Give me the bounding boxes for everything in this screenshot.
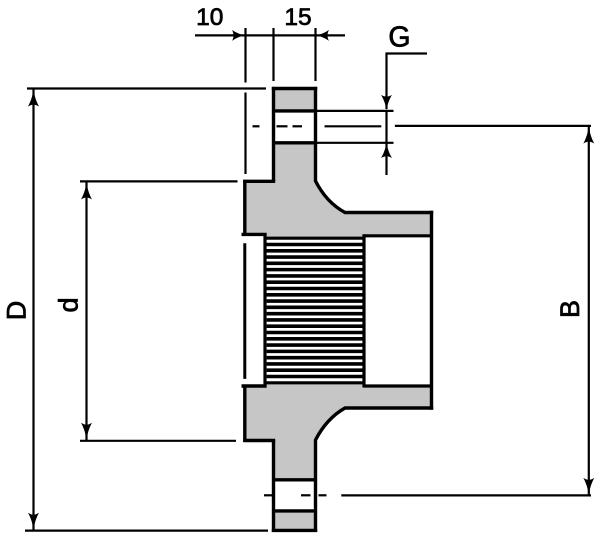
plate bottom face xyxy=(272,529,317,532)
G arrow up xyxy=(381,143,392,158)
thread crest top line xyxy=(265,237,364,240)
B arrow up xyxy=(583,126,594,143)
extension line raised face front (10 left) xyxy=(244,28,246,83)
threaded hub with fillets (gray section) xyxy=(314,181,432,440)
arrow 10 (points right at x=245) xyxy=(232,30,245,41)
top bolt hole center line xyxy=(253,125,382,127)
thread hatch lines xyxy=(266,244,363,376)
raised face front upper segment xyxy=(243,180,246,236)
counterbore bottom edge xyxy=(364,384,433,387)
plate top face xyxy=(272,87,317,90)
top bolt hole void xyxy=(274,111,316,143)
svg-text:15: 15 xyxy=(284,4,311,31)
G leader line xyxy=(387,54,428,110)
top bolt hole upper edge xyxy=(272,109,317,112)
B arrow down xyxy=(583,478,594,495)
counterbore void xyxy=(364,236,432,386)
hub right face xyxy=(430,211,433,410)
D bottom extension line xyxy=(25,529,268,531)
d arrow up xyxy=(81,182,92,199)
plate left face lower segment xyxy=(272,441,275,533)
bottom bolt hole upper edge xyxy=(272,478,317,481)
d top extension line xyxy=(80,180,238,182)
G line through bolt hole xyxy=(385,110,387,175)
thread left boundary xyxy=(263,233,266,388)
recess bottom surface xyxy=(242,384,267,387)
top bolt hole lower edge xyxy=(272,141,317,144)
D arrow up xyxy=(28,89,39,106)
svg-text:B: B xyxy=(555,300,585,318)
bore far-edge line xyxy=(243,243,246,379)
d dimension line xyxy=(85,182,87,440)
raised gasket face (gray section) xyxy=(245,181,276,440)
plate left face upper segment xyxy=(272,87,275,181)
B dimension line xyxy=(588,126,590,495)
svg-text:d: d xyxy=(54,297,84,312)
d bottom extension line xyxy=(80,440,236,442)
bore entry recess void xyxy=(243,234,265,386)
plate right face + top fillet + hub top surface xyxy=(316,87,434,213)
D arrow down xyxy=(28,513,39,530)
top dimension line xyxy=(195,34,345,36)
B bottom extension line xyxy=(341,494,591,496)
bolt hole edge extension upper xyxy=(317,110,394,112)
raised face front lower segment xyxy=(243,387,246,443)
counterbore top edge xyxy=(364,234,433,237)
thread right boundary xyxy=(362,234,365,387)
bolt hole edge extension lower xyxy=(317,142,394,144)
svg-text:10: 10 xyxy=(196,4,223,31)
extension line raised face front lower part xyxy=(244,93,246,175)
raised face bottom surface xyxy=(243,439,275,442)
thick outlines xyxy=(242,87,434,532)
bottom bolt hole void xyxy=(274,480,316,511)
raised face top surface xyxy=(243,180,275,183)
svg-text:G: G xyxy=(388,22,410,54)
D top extension line xyxy=(27,87,266,89)
plate right face + bottom fillet + hub bottom surface xyxy=(316,408,434,532)
svg-text:D: D xyxy=(2,301,32,321)
bottom bolt hole center line xyxy=(264,494,327,496)
G arrow down xyxy=(381,95,392,110)
extension line plate left face (15 left) xyxy=(272,28,274,81)
D dimension line xyxy=(32,89,34,530)
flange plate body (gray section) xyxy=(273,89,317,531)
B top extension line xyxy=(395,125,591,127)
arrow 15 (points left at x=316) xyxy=(316,30,329,41)
extension line plate right face (15 right) xyxy=(314,28,316,81)
threaded bore void xyxy=(265,238,364,383)
bottom bolt hole lower edge xyxy=(272,509,317,512)
recess top surface xyxy=(242,233,267,236)
thread crest bottom line xyxy=(265,381,364,384)
d arrow down xyxy=(81,423,92,440)
